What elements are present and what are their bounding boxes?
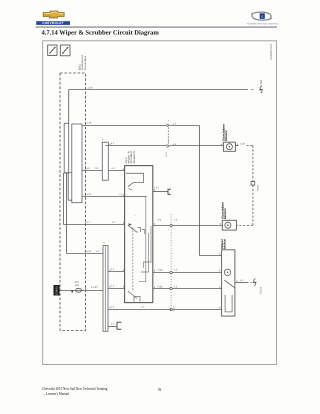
dashboard fuse box (dashed)	[60, 73, 86, 331]
fuse strip wide	[72, 124, 82, 203]
harness dotted column	[170, 214, 172, 312]
motor1 right dashed to connector square	[235, 145, 238, 147]
inline connector arrow pair	[167, 124, 170, 147]
header rule	[36, 26, 278, 28]
svg-text:1.2: 1.2	[111, 285, 115, 288]
drop wires from narrow strip	[62, 173, 64, 225]
feed drop into fuse strip	[68, 90, 70, 124]
svg-text:a 1: a 1	[87, 221, 91, 224]
svg-text:a 52: a 52	[87, 250, 92, 253]
D wires right	[108, 271, 125, 273]
svg-text:Fuse Box: Fuse Box	[84, 54, 87, 70]
svg-text:F010a: F010a	[257, 184, 260, 191]
svg-text:+ 53: + 53	[157, 219, 162, 222]
svg-text:1.2: 1.2	[111, 323, 115, 326]
wiper motor park feed	[170, 309, 171, 311]
blade 2	[128, 225, 138, 232]
svg-text:1.2: 1.2	[111, 268, 115, 271]
scrubber motor 1	[223, 142, 235, 151]
top feed wire	[69, 89, 248, 91]
svg-text:1.2: 1.2	[111, 306, 115, 309]
diagram outer frame	[43, 41, 277, 365]
legend square 2	[60, 45, 70, 56]
svg-text:Motor: Motor	[224, 239, 227, 249]
wire from rect C top to motor1	[105, 145, 167, 147]
mechanical dashed link	[132, 228, 134, 293]
distribution rect D	[103, 246, 108, 332]
svg-text:a 30: a 30	[87, 122, 92, 125]
switch exits right	[153, 225, 223, 227]
risers	[139, 197, 146, 282]
wiper motor exit to connector	[235, 282, 249, 284]
wire W5	[67, 253, 104, 255]
svg-text:SC06007014: SC06007014	[270, 43, 273, 60]
svg-text:0.5: 0.5	[95, 167, 99, 170]
svg-text:a 30: a 30	[240, 142, 245, 145]
legend square 1	[48, 45, 57, 55]
svg-text:5: 5	[102, 138, 105, 140]
svg-text:E801: E801	[55, 285, 58, 294]
strip interconnects	[64, 172, 72, 174]
svg-text:+ 53a: + 53a	[157, 269, 164, 272]
svg-text:a 1.2: a 1.2	[173, 306, 176, 312]
page connector symbol top right	[259, 86, 263, 93]
svg-text:1.2: 1.2	[96, 250, 100, 253]
svg-text:–: –	[135, 215, 137, 218]
wiper motor	[222, 250, 235, 316]
svg-text:x: x	[167, 119, 170, 121]
battery wire	[60, 290, 104, 292]
svg-text:1: 1	[102, 241, 105, 243]
svg-text:1.5: 1.5	[174, 269, 178, 272]
svg-text:1.5: 1.5	[174, 285, 178, 288]
vertical feed to wiper motor	[198, 126, 200, 256]
svg-text:+ E1: + E1	[154, 187, 160, 190]
scrubber motor 2	[222, 220, 236, 230]
svg-text:a 1: a 1	[112, 167, 116, 170]
svg-text:a 52: a 52	[87, 193, 92, 196]
svg-text:30A: 30A	[75, 284, 80, 287]
svg-text:Switch: Switch	[133, 150, 136, 164]
svg-text:+ 1: + 1	[119, 193, 123, 196]
svg-text:a 1: a 1	[240, 279, 244, 282]
wire W3	[82, 196, 147, 198]
svg-text:4.7.14 Wiper & Scrubber Circu: 4.7.14 Wiper & Scrubber Circuit Diagram	[42, 30, 160, 37]
svg-text:1.2: 1.2	[141, 306, 145, 309]
wire W4 with arrow	[63, 224, 124, 226]
wiper switch box	[125, 166, 153, 303]
fuse F	[76, 288, 82, 292]
exit wire to bracket	[153, 191, 168, 193]
svg-text:TECHNOLOGY AND SERVICE: TECHNOLOGY AND SERVICE	[247, 23, 279, 26]
ground bracket bottom	[117, 322, 122, 329]
fuse strip narrow	[64, 123, 69, 173]
contact hooks	[138, 228, 141, 233]
intermittent link rect C	[102, 142, 108, 180]
pin tick marks	[86, 88, 238, 309]
svg-text:F012a: F012a	[260, 286, 263, 293]
svg-text:CHEVROLET: CHEVROLET	[42, 21, 64, 25]
right logo swoosh	[247, 12, 279, 26]
blade 3	[128, 291, 137, 299]
svg-text:Motor: Motor	[224, 208, 227, 219]
battery feed black box	[54, 285, 60, 296]
svg-text:a 0.5: a 0.5	[165, 151, 168, 157]
wire W2	[82, 170, 125, 172]
svg-text:1.5: 1.5	[174, 219, 178, 222]
wire from connector to drop	[170, 125, 200, 127]
svg-text:F15: F15	[75, 281, 80, 284]
chevrolet bowtie logo	[43, 11, 64, 18]
svg-text:a 30: a 30	[88, 86, 93, 89]
svg-text:i.2: i.2	[95, 286, 98, 289]
chevrolet wordmark bar	[36, 21, 70, 25]
footer	[42, 387, 214, 397]
svg-text:F001: F001	[260, 79, 263, 85]
svg-text:+ 53b: + 53b	[157, 285, 164, 288]
wire W1 to inline connector	[82, 125, 167, 127]
svg-text:Motor: Motor	[225, 130, 228, 141]
inner contact rect top	[126, 173, 144, 182]
svg-text:a 1: a 1	[111, 142, 115, 145]
svg-text:a 5: a 5	[87, 167, 91, 170]
svg-text:a 5: a 5	[173, 122, 177, 125]
blade 1	[128, 183, 134, 187]
svg-text:1.2: 1.2	[112, 221, 116, 224]
